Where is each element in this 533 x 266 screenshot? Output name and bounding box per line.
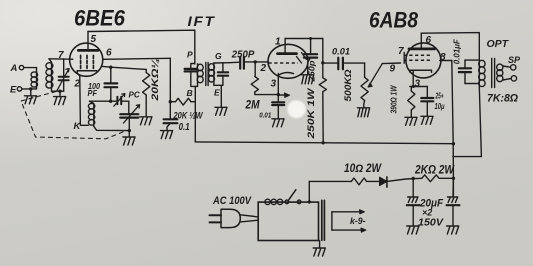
resistor 250K 1W xyxy=(319,63,326,143)
label 100PF xyxy=(88,81,101,98)
svg-text:6: 6 xyxy=(426,35,432,46)
V3 pin 6 lead xyxy=(421,33,431,49)
OPT primary winding xyxy=(479,60,485,87)
wire B+ drop xyxy=(194,86,196,141)
label tube 6AB8 xyxy=(369,8,419,33)
tube V2 triode envelope xyxy=(268,44,308,78)
ground transformer xyxy=(313,241,325,257)
ground 20uF input xyxy=(407,226,419,234)
svg-text:7K:8Ω: 7K:8Ω xyxy=(487,93,518,105)
plug prongs xyxy=(210,215,222,222)
diode rectifier xyxy=(380,177,387,187)
capacitor 0.01uF OPT xyxy=(459,60,480,83)
power switch xyxy=(285,190,301,204)
label AC 100V xyxy=(212,195,252,207)
label 0.1 xyxy=(179,122,190,133)
IFT core xyxy=(206,63,208,86)
node switch out xyxy=(308,200,311,203)
node VC2 bottom xyxy=(128,129,131,132)
antenna coil L2 secondary xyxy=(46,59,53,91)
wire secondary bottom xyxy=(52,90,64,92)
wire diode out xyxy=(387,178,422,181)
V2 shield dashes xyxy=(297,53,307,64)
svg-text:390Ω 1W: 390Ω 1W xyxy=(388,85,398,114)
svg-text:1: 1 xyxy=(275,37,281,48)
ground antenna xyxy=(24,89,36,104)
ground IFT E xyxy=(215,107,227,115)
svg-text:20KΩ¼: 20KΩ¼ xyxy=(150,58,161,101)
svg-text:0.01: 0.01 xyxy=(259,111,271,120)
label 0.01 det xyxy=(259,111,271,120)
wiper arrow detector xyxy=(278,93,289,97)
wire osc bottom xyxy=(94,126,130,130)
gang linkage dashed xyxy=(21,92,127,139)
label IFT xyxy=(188,14,216,29)
capacitor 250p bypass xyxy=(304,39,317,75)
VC2 arrow xyxy=(124,105,140,123)
V1 cathode xyxy=(77,71,97,76)
svg-text:25+: 25+ xyxy=(435,92,444,101)
V1 grids xyxy=(81,55,94,68)
svg-text:10μ: 10μ xyxy=(435,101,446,111)
antenna coil L1 primary xyxy=(31,72,38,89)
PC arrow xyxy=(114,94,125,107)
label pin 3 xyxy=(271,79,277,90)
wire cathode bus xyxy=(410,85,428,88)
IFT secondary cap xyxy=(214,63,228,86)
IFT E lead xyxy=(214,85,221,107)
svg-text:PC: PC xyxy=(129,91,140,100)
svg-text:8: 8 xyxy=(440,52,446,63)
500K wiper xyxy=(368,64,382,87)
svg-text:150V: 150V xyxy=(418,217,444,229)
svg-text:A: A xyxy=(10,63,18,74)
label 0.01uF xyxy=(453,38,462,64)
IFT primary cap xyxy=(185,64,198,87)
plug cord xyxy=(240,215,258,222)
wire screen drop xyxy=(169,58,171,101)
svg-text:7: 7 xyxy=(58,50,64,61)
V1 lower output wire xyxy=(101,66,146,69)
svg-text:k-9-: k-9- xyxy=(350,216,366,227)
tube V1 envelope xyxy=(70,43,103,76)
svg-text:K: K xyxy=(74,121,82,132)
svg-text:2M: 2M xyxy=(245,98,261,112)
svg-text:0.01: 0.01 xyxy=(332,47,350,58)
svg-text:500KΩ: 500KΩ xyxy=(343,70,353,102)
resistor 2K 2W xyxy=(422,175,454,182)
V3 plate xyxy=(409,48,435,51)
svg-text:E: E xyxy=(214,88,220,98)
node tank bottom xyxy=(58,90,61,93)
svg-text:250K 1W: 250K 1W xyxy=(306,87,317,140)
wire plate to IFT xyxy=(88,30,195,64)
wire E to coil bottom xyxy=(22,88,37,90)
capacitor 0.01 coupling xyxy=(323,58,365,70)
plug body xyxy=(221,209,240,227)
wire plate to OPT xyxy=(421,33,479,61)
capacitor 20uF output xyxy=(447,178,460,226)
svg-text:9: 9 xyxy=(390,64,396,75)
label tube V1 6BE6 xyxy=(74,6,126,31)
wire V2 plate top xyxy=(285,38,323,40)
capacitor 0.1 xyxy=(164,102,178,131)
wire B+ rail xyxy=(195,142,453,144)
capacitor 20uF input xyxy=(407,179,420,227)
svg-text:0.1: 0.1 xyxy=(179,122,190,133)
oscillator tuning capacitor VC2 xyxy=(120,101,138,130)
svg-text:250p: 250p xyxy=(307,61,317,83)
svg-text:20K ½W: 20K ½W xyxy=(173,111,204,121)
wire plate drop xyxy=(322,39,324,63)
label 0.01 coupling xyxy=(332,47,350,58)
svg-text:2: 2 xyxy=(260,63,267,74)
terminal SP bottom xyxy=(503,76,517,81)
svg-text:E: E xyxy=(10,85,17,96)
label PC xyxy=(129,91,140,100)
node filter cap 1 xyxy=(412,177,415,180)
svg-text:B: B xyxy=(187,88,193,98)
label 250p xyxy=(307,61,317,83)
label B xyxy=(187,88,193,98)
wire OPT return xyxy=(453,87,482,157)
wire to pentode grid xyxy=(382,62,400,65)
label OPT xyxy=(487,38,510,50)
ground grid tank xyxy=(54,91,66,104)
terminal A xyxy=(10,63,24,74)
ground 250p xyxy=(301,75,313,84)
wire osc top xyxy=(90,100,129,102)
label heater xyxy=(350,216,366,227)
ground 500K xyxy=(357,108,369,117)
node E junction xyxy=(29,87,32,90)
IFT primary winding xyxy=(197,64,203,87)
pin 7 lead xyxy=(403,53,405,64)
node detector grid xyxy=(254,60,257,63)
V2 pin 1 lead xyxy=(275,37,285,53)
label SP xyxy=(508,55,521,65)
label G xyxy=(215,51,222,61)
V3 cathode lead xyxy=(412,71,414,87)
svg-text:G: G xyxy=(215,51,222,61)
label 250P xyxy=(231,50,255,61)
V2 cathode lead xyxy=(277,74,279,95)
svg-text:250P: 250P xyxy=(231,50,255,61)
capacitor 0.01 detector xyxy=(272,95,284,119)
svg-text:P: P xyxy=(187,50,193,60)
svg-text:2: 2 xyxy=(74,79,81,90)
svg-text:OPT: OPT xyxy=(487,38,510,50)
svg-text:3: 3 xyxy=(271,79,277,90)
svg-text:SP: SP xyxy=(508,55,521,65)
node B+ at 250K xyxy=(322,141,325,144)
label pin 2 xyxy=(260,63,267,74)
tuning capacitor VC1 xyxy=(59,59,69,91)
ground C det xyxy=(272,119,284,127)
svg-text:PF: PF xyxy=(88,88,98,98)
svg-text:7: 7 xyxy=(398,46,404,57)
OPT secondary winding xyxy=(497,64,503,82)
svg-text:5: 5 xyxy=(91,34,97,45)
VC1 arrow xyxy=(57,69,69,91)
capacitor 100PF xyxy=(105,67,118,101)
resistor 10 ohm 2W xyxy=(351,178,379,185)
label pin 9 xyxy=(390,64,396,75)
tube V3 envelope xyxy=(406,43,441,78)
label 2M xyxy=(245,98,261,112)
label pin 3 pentode xyxy=(415,79,421,90)
V3 grid xyxy=(404,59,431,61)
V2 cathode xyxy=(278,72,294,75)
IFT secondary winding xyxy=(209,63,230,86)
svg-text:AC 100V: AC 100V xyxy=(212,195,252,207)
V1 pin 5 lead xyxy=(88,32,97,50)
V1 pin 6 wire xyxy=(103,48,171,60)
terminal E xyxy=(10,85,22,96)
svg-text:6AB8: 6AB8 xyxy=(369,8,419,33)
resistor 390 ohm xyxy=(408,87,415,118)
OPT core xyxy=(492,59,495,88)
wire grid tank top xyxy=(49,58,73,60)
fuse coil xyxy=(265,199,283,204)
svg-text:3: 3 xyxy=(415,79,421,90)
svg-text:IFT: IFT xyxy=(188,14,216,29)
node plate coupling xyxy=(321,61,324,64)
ground 25u xyxy=(421,116,433,124)
node screen junction xyxy=(169,100,172,103)
power transformer core xyxy=(322,200,325,240)
V1 plate xyxy=(78,49,98,52)
label 20uF x2 150V xyxy=(418,198,444,229)
svg-text:0.01μF: 0.01μF xyxy=(453,38,462,64)
label 250K 1W xyxy=(306,87,317,140)
scan white blob xyxy=(286,99,307,119)
node B+ at filter xyxy=(452,142,455,145)
svg-text:2KΩ 2W: 2KΩ 2W xyxy=(414,163,455,177)
label 500K xyxy=(343,70,353,102)
capacitor 25+10u xyxy=(421,87,433,117)
oscillator coil L3 xyxy=(88,101,94,126)
terminal SP top xyxy=(503,65,516,70)
label 20K half W xyxy=(173,111,204,121)
ground C 0.1 xyxy=(161,131,173,139)
label 2K 2W xyxy=(414,163,455,177)
node K oscillator tap xyxy=(74,121,82,132)
label 20K ohm quarter xyxy=(150,58,161,101)
node filter cap 2 xyxy=(452,177,455,180)
resistor 2M xyxy=(251,62,278,95)
svg-text:6BE6: 6BE6 xyxy=(74,6,126,31)
node 100PF top xyxy=(109,66,112,69)
wire rectifier feed xyxy=(309,181,351,202)
potentiometer 500K xyxy=(361,63,368,108)
ground 20uF output xyxy=(447,226,459,234)
resistor 20K ohm quarter W xyxy=(143,69,150,116)
svg-text:10Ω 2W: 10Ω 2W xyxy=(344,163,382,175)
trimmer capacitor PC xyxy=(117,97,121,104)
label 390 ohm xyxy=(388,85,398,114)
label P xyxy=(187,50,193,60)
ground 390 xyxy=(405,117,417,125)
V3 screen xyxy=(404,54,431,56)
ground R osc xyxy=(140,117,152,125)
label 10 ohm 2W xyxy=(344,163,382,175)
capacitor 250P xyxy=(229,57,268,69)
V3 pin 8 wire xyxy=(440,61,454,196)
V2 plate xyxy=(278,52,297,55)
V2 grid xyxy=(269,62,299,64)
resistor 20K half W xyxy=(170,98,195,105)
label 7K 8ohm xyxy=(487,93,518,105)
node cathode junction xyxy=(277,93,280,96)
power transformer primary box xyxy=(258,202,318,240)
label pin 8 xyxy=(440,52,446,63)
heater winding xyxy=(332,210,366,233)
V1 pin 7 label xyxy=(58,50,64,61)
wire A to antenna coil xyxy=(24,68,37,72)
node osc grid xyxy=(109,100,112,103)
V1 pin 2 lead xyxy=(74,76,89,125)
label pin 7 pentode xyxy=(398,46,404,57)
ground VC2 xyxy=(123,131,135,145)
svg-text:6: 6 xyxy=(106,48,112,59)
V3 cathode xyxy=(410,70,432,72)
node 250p tap xyxy=(309,37,312,40)
label 25+10u xyxy=(435,92,446,112)
